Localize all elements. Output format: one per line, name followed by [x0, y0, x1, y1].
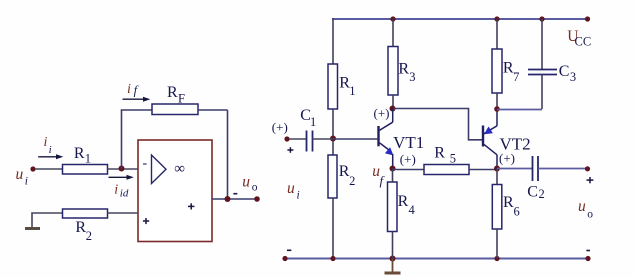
- node top rail end: [585, 16, 590, 21]
- svg-text:R: R: [434, 145, 445, 162]
- svg-text:5: 5: [450, 151, 456, 165]
- svg-text:VT1: VT1: [393, 133, 424, 152]
- op-amp U1 box: [138, 140, 212, 242]
- wire R4 bottom lead: [392, 232, 394, 259]
- node top rail R3: [390, 16, 395, 21]
- node u_f emitter: [390, 166, 396, 172]
- node input terminal: [284, 136, 289, 141]
- opamp plus inside left: [143, 218, 149, 224]
- node output junction: [225, 196, 231, 202]
- wire R6 bottom lead: [496, 229, 498, 259]
- opamp triangle: [152, 155, 167, 184]
- node bottom rail R2: [330, 256, 335, 261]
- svg-text:i: i: [44, 135, 48, 150]
- resistor R6: [492, 185, 502, 230]
- node C1 junction: [330, 136, 336, 142]
- resistor R1 (right): [328, 64, 338, 109]
- wire R2 to bottom rail: [332, 198, 334, 259]
- wire R3 top lead: [392, 19, 394, 47]
- wire left column top: [332, 18, 334, 64]
- wire feedback vertical up: [121, 110, 123, 169]
- transistor VT1: [379, 109, 394, 169]
- current arrow i_i: [38, 135, 63, 159]
- ground (left circuit): [25, 227, 40, 230]
- resistor R1 (left): [63, 165, 108, 175]
- label minus bottom right: [586, 250, 590, 252]
- resistor R4: [388, 182, 398, 232]
- wire junction to C3: [497, 109, 542, 111]
- svg-text:R: R: [503, 194, 514, 211]
- svg-text:id: id: [120, 188, 129, 200]
- node output terminal right: [585, 166, 590, 171]
- node bottom rail R6: [494, 256, 499, 261]
- wire R4 top lead: [392, 169, 394, 183]
- resistor RF: [152, 104, 198, 115]
- svg-text:f: f: [134, 84, 139, 98]
- svg-text:i: i: [49, 144, 52, 156]
- wire output: [212, 198, 257, 200]
- node bottom rail R4: [390, 256, 396, 262]
- svg-text:6: 6: [514, 204, 520, 218]
- current arrow i_id: [109, 175, 134, 200]
- wire top rail: [332, 18, 588, 20]
- label plus below C1: [287, 147, 293, 153]
- svg-text:R: R: [398, 61, 409, 78]
- svg-text:i: i: [297, 189, 300, 201]
- wire input to R1: [35, 168, 63, 170]
- svg-text:∞: ∞: [174, 161, 185, 177]
- wire C2 to output terminal: [538, 168, 588, 170]
- svg-text:R: R: [74, 145, 85, 162]
- svg-text:2: 2: [86, 229, 92, 243]
- capacitor C3: [541, 19, 543, 70]
- wire R6 top lead: [496, 169, 498, 185]
- resistor R2 (right): [328, 155, 337, 198]
- svg-text:R: R: [167, 84, 178, 101]
- svg-text:u: u: [287, 180, 295, 197]
- capacitor C2: [532, 156, 534, 181]
- wire R2 left to ground: [32, 213, 63, 228]
- node top rail C3: [539, 16, 544, 21]
- svg-text:C: C: [527, 184, 538, 201]
- svg-text:f: f: [380, 173, 386, 188]
- svg-text:o: o: [252, 181, 258, 193]
- svg-text:(+): (+): [272, 119, 288, 134]
- node R7 bottom junction: [494, 106, 500, 112]
- wire output node to C2: [497, 168, 532, 170]
- transistor VT2: [483, 109, 497, 169]
- svg-text:2: 2: [349, 174, 355, 188]
- wire R1 to opamp: [108, 168, 139, 170]
- resistor R7: [492, 49, 502, 93]
- wire R5 to output node: [469, 169, 497, 171]
- svg-text:R: R: [75, 219, 86, 236]
- resistor R5: [424, 165, 469, 175]
- svg-text:i: i: [25, 176, 28, 188]
- svg-text:1: 1: [310, 115, 316, 129]
- svg-text:(+): (+): [499, 151, 515, 166]
- wire R7 top lead: [496, 19, 498, 49]
- ground (right circuit): [392, 259, 394, 273]
- wire bottom rail: [285, 258, 588, 260]
- resistor R2 (left): [63, 209, 108, 218]
- node bottom rail left: [282, 256, 287, 261]
- svg-text:R: R: [398, 193, 409, 210]
- wire R3 bottom lead: [392, 95, 394, 109]
- node junction inverting input: [119, 166, 125, 172]
- svg-text:(+): (+): [374, 106, 390, 121]
- node VT1 collector junction: [390, 106, 396, 112]
- svg-text:o: o: [587, 208, 593, 220]
- node output terminal: [254, 196, 260, 202]
- label plus at output: [587, 177, 594, 183]
- wire u_f to R5: [393, 169, 425, 171]
- node output collector junction: [494, 166, 500, 172]
- svg-text:u: u: [16, 166, 24, 183]
- svg-text:3: 3: [409, 70, 415, 84]
- svg-text:F: F: [178, 92, 185, 106]
- svg-text:7: 7: [513, 70, 519, 84]
- svg-text:u: u: [242, 174, 250, 191]
- current arrow i_f: [123, 82, 151, 102]
- wire feedback vertical down: [227, 110, 229, 199]
- wire R2 to opamp plus: [108, 212, 139, 214]
- svg-text:1: 1: [85, 152, 91, 166]
- svg-text:(+): (+): [400, 152, 416, 167]
- node top rail R7: [494, 16, 499, 21]
- svg-text:CC: CC: [575, 35, 592, 49]
- svg-text:2: 2: [539, 187, 545, 201]
- resistor R3: [388, 47, 398, 96]
- svg-text:u: u: [578, 198, 586, 215]
- capacitor C1: [306, 131, 308, 152]
- opamp plus inside right: [188, 203, 194, 209]
- wire feedback top right: [198, 109, 228, 111]
- node bottom rail right: [585, 256, 590, 261]
- wire R7 bottom lead: [496, 93, 498, 109]
- svg-text:-: -: [143, 156, 148, 171]
- wire C1 to junction: [313, 138, 334, 140]
- svg-text:i: i: [114, 183, 118, 198]
- wire R1 to C1 junction: [332, 109, 334, 155]
- wire junction to VT1 base: [333, 138, 377, 140]
- wire collector junction to VT2 base: [393, 109, 482, 140]
- svg-text:C: C: [559, 63, 570, 80]
- svg-text:4: 4: [409, 203, 416, 217]
- wire input to C1: [289, 138, 306, 140]
- label minus at output: [233, 193, 237, 195]
- node ui input terminal: [30, 166, 35, 171]
- wire feedback top left: [121, 109, 152, 111]
- svg-text:i: i: [127, 82, 131, 97]
- svg-text:3: 3: [570, 70, 576, 84]
- label minus bottom left: [287, 249, 291, 251]
- svg-text:1: 1: [349, 84, 355, 98]
